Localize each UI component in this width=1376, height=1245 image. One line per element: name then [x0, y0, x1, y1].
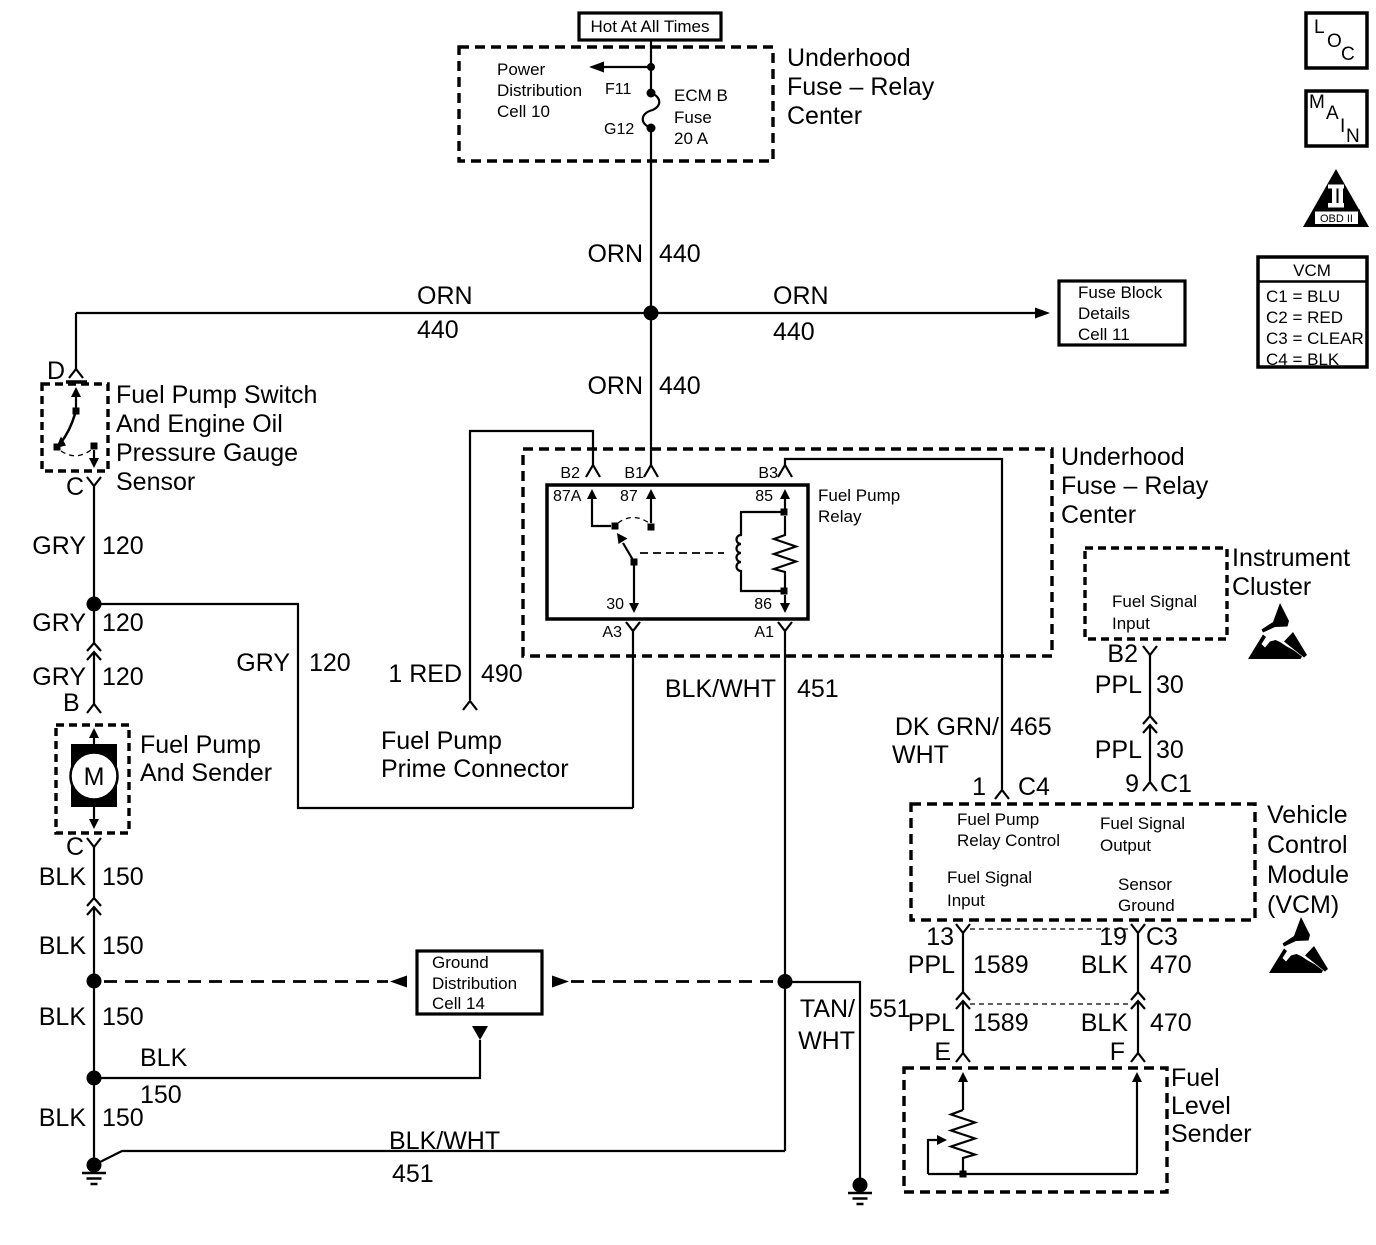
wire: GRY 120 branch from switch node to relay pin 30 — [94, 604, 633, 808]
svg-text:440: 440 — [417, 316, 459, 344]
svg-text:TAN/: TAN/ — [800, 995, 855, 1023]
svg-text:Fuel Pump Switch: Fuel Pump Switch — [116, 381, 317, 409]
dashed wire to Ground Distribution (left) — [104, 980, 388, 983]
svg-text:BLK: BLK — [39, 932, 87, 960]
wire: BLK/WHT 451 bottom run — [94, 1151, 785, 1165]
node: GRY junction to relay pin 30 branch — [87, 597, 102, 612]
svg-text:PPL: PPL — [908, 951, 955, 979]
dashed wire to Ground Distribution (right) — [552, 976, 569, 988]
svg-text:150: 150 — [102, 932, 144, 960]
in-line connector on BLK wire — [87, 898, 101, 915]
svg-text:551: 551 — [869, 995, 911, 1023]
svg-text:Details: Details — [1078, 304, 1130, 323]
svg-text:Pressure Gauge: Pressure Gauge — [116, 439, 298, 467]
node: main ORN junction — [644, 306, 659, 321]
svg-text:O: O — [1327, 31, 1342, 52]
sender variable resistor — [951, 1110, 975, 1171]
fuse F11 ECM B 20A — [647, 89, 656, 98]
switch blade — [60, 414, 75, 444]
svg-text:ORN: ORN — [587, 372, 643, 400]
svg-text:G12: G12 — [604, 121, 634, 138]
switch contact node — [73, 408, 80, 415]
svg-text:Power: Power — [497, 60, 546, 79]
svg-text:Distribution: Distribution — [497, 81, 582, 100]
svg-text:150: 150 — [102, 863, 144, 891]
node: BLK junction to ground distribution — [87, 974, 102, 989]
svg-text:C4: C4 — [1018, 773, 1050, 801]
svg-text:PPL: PPL — [1095, 671, 1142, 699]
svg-text:Ground: Ground — [432, 953, 489, 972]
connector C — [87, 477, 101, 486]
svg-text:120: 120 — [309, 649, 351, 677]
connector B2 — [586, 465, 600, 477]
sender bottom wire — [928, 1173, 1137, 1175]
svg-text:Fuel Signal: Fuel Signal — [1112, 592, 1197, 611]
Underhood Fuse-Relay Center dashed box (relay) — [523, 449, 1052, 656]
in-line connector on GRY wire — [87, 643, 101, 660]
svg-text:470: 470 — [1150, 951, 1192, 979]
svg-text:A3: A3 — [602, 624, 622, 641]
svg-text:Fuel Pump: Fuel Pump — [818, 486, 900, 505]
svg-text:Level: Level — [1171, 1092, 1231, 1120]
svg-text:440: 440 — [773, 318, 815, 346]
svg-text:Control: Control — [1267, 831, 1348, 859]
svg-text:470: 470 — [1150, 1009, 1192, 1037]
relay pin 86 arrow — [784, 595, 786, 603]
Hot At All Times box — [579, 13, 721, 40]
Fuse Block Details Cell 11 box — [1059, 281, 1185, 345]
svg-text:GRY: GRY — [236, 649, 290, 677]
svg-text:1: 1 — [972, 773, 986, 801]
svg-text:465: 465 — [1010, 713, 1052, 741]
wire: DK GRN/WHT 465 from B3 to VCM C4 — [785, 459, 1002, 790]
Fuel Level Sender dashed box — [904, 1068, 1167, 1192]
OBD II symbol — [1303, 169, 1369, 227]
ESD symbol (VCM) — [1269, 917, 1328, 973]
svg-text:B1: B1 — [624, 465, 644, 482]
svg-text:Sensor: Sensor — [116, 468, 195, 496]
ESD symbol (instrument cluster) — [1248, 603, 1307, 659]
svg-text:Hot At All Times: Hot At All Times — [590, 17, 709, 36]
coil bottom node — [781, 588, 788, 595]
node: BLK junction to ground distribution tap — [87, 1071, 102, 1086]
svg-text:B2: B2 — [560, 465, 580, 482]
svg-text:ORN: ORN — [417, 282, 473, 310]
svg-text:Vehicle: Vehicle — [1267, 801, 1348, 829]
sender signal arrow — [958, 1072, 968, 1082]
connector B3 — [778, 465, 792, 477]
wire: ORN 440 horizontal bus — [76, 312, 1042, 314]
svg-text:150: 150 — [102, 1003, 144, 1031]
in-line connector on PPL wire — [1143, 716, 1157, 733]
wire: BLK 470 — [1137, 933, 1139, 992]
svg-text:M: M — [1309, 92, 1325, 113]
svg-text:120: 120 — [102, 532, 144, 560]
svg-text:Fuse: Fuse — [674, 108, 712, 127]
svg-text:Fuel Pump: Fuel Pump — [140, 731, 261, 759]
relay common 30 arrow — [633, 565, 635, 603]
wire: sender ground to F — [1136, 1081, 1138, 1174]
relay suppression resistor — [774, 516, 796, 588]
ground G103 (left) — [87, 1158, 102, 1173]
svg-text:GRY: GRY — [32, 609, 86, 637]
svg-text:E: E — [934, 1038, 951, 1066]
svg-text:Fuel Signal: Fuel Signal — [947, 868, 1032, 887]
svg-text:ORN: ORN — [587, 240, 643, 268]
switch output arrow (down) — [93, 450, 95, 459]
svg-text:BLK: BLK — [1081, 951, 1129, 979]
svg-text:BLK: BLK — [39, 863, 87, 891]
relay pin 85 arrow — [784, 499, 786, 509]
wire: BLK 150 branch to Ground Distribution box — [94, 1040, 480, 1078]
svg-text:451: 451 — [797, 675, 839, 703]
wire: PPL 30 — [1149, 655, 1151, 716]
Instrument Cluster dashed box — [1085, 548, 1227, 639]
svg-text:And Sender: And Sender — [140, 759, 272, 787]
svg-text:B3: B3 — [758, 465, 778, 482]
relay coil — [737, 512, 785, 591]
Fuel Pump Switch dashed box — [42, 384, 108, 471]
node: junction BLK/WHT to ground distribution — [778, 974, 793, 989]
svg-text:Cell 10: Cell 10 — [497, 102, 550, 121]
svg-text:Fuse Block: Fuse Block — [1078, 283, 1163, 302]
svg-text:Fuel Signal: Fuel Signal — [1100, 814, 1185, 833]
VCM connector legend table — [1258, 257, 1367, 369]
svg-text:1 RED: 1 RED — [388, 660, 462, 688]
connector B2 (cluster) — [1143, 646, 1157, 655]
relay actuator dashed link — [640, 552, 724, 554]
svg-text:Fuel Pump: Fuel Pump — [381, 727, 502, 755]
svg-text:Relay: Relay — [818, 507, 862, 526]
svg-text:D: D — [47, 357, 65, 385]
svg-text:87: 87 — [620, 488, 638, 505]
Underhood Fuse-Relay Center dashed box (top) — [459, 47, 773, 161]
connector 19 — [1131, 924, 1145, 933]
motor M1 fuel pump — [71, 744, 117, 807]
svg-text:I: I — [1340, 116, 1345, 137]
Vehicle Control Module dashed box — [911, 804, 1255, 920]
svg-text:Sensor: Sensor — [1118, 875, 1172, 894]
svg-text:BLK/WHT: BLK/WHT — [389, 1127, 500, 1155]
connector 13 — [956, 924, 970, 933]
wire: battery feed down from Hot At All Times — [650, 40, 652, 90]
svg-text:Center: Center — [1061, 501, 1136, 529]
connector E — [956, 1053, 970, 1062]
svg-text:PPL: PPL — [908, 1009, 955, 1037]
svg-text:120: 120 — [102, 663, 144, 691]
svg-text:A1: A1 — [754, 624, 774, 641]
svg-text:Output: Output — [1100, 836, 1151, 855]
svg-text:Prime Connector: Prime Connector — [381, 755, 569, 783]
svg-text:13: 13 — [926, 923, 954, 951]
sender resistor bottom node — [960, 1171, 967, 1178]
svg-text:C: C — [1341, 44, 1355, 65]
svg-text:30: 30 — [1156, 736, 1184, 764]
connector link dashed (bottom) — [970, 1003, 1131, 1005]
svg-text:C3 = CLEAR: C3 = CLEAR — [1266, 329, 1364, 348]
svg-text:BLK: BLK — [1081, 1009, 1129, 1037]
svg-text:Sender: Sender — [1171, 1120, 1252, 1148]
svg-text:30: 30 — [1156, 671, 1184, 699]
relay blade pivot — [631, 559, 638, 566]
svg-text:Fuse – Relay: Fuse – Relay — [1061, 472, 1209, 500]
wire: BLK 150 — [93, 847, 95, 898]
MAIN symbol box — [1306, 91, 1367, 146]
svg-text:451: 451 — [392, 1160, 434, 1188]
connector D (male/female halves) — [69, 369, 83, 378]
svg-text:B: B — [63, 689, 80, 717]
motor return arrow — [93, 807, 95, 820]
svg-text:L: L — [1314, 17, 1325, 38]
connector B1 — [644, 465, 658, 477]
wire: arrow to Power Distribution — [598, 66, 651, 68]
svg-text:87A: 87A — [553, 488, 582, 505]
svg-text:OBD II: OBD II — [1320, 213, 1353, 225]
wire: BLK/WHT 451 from relay 86 — [784, 631, 786, 1151]
svg-text:86: 86 — [754, 596, 772, 613]
connector F — [1131, 1053, 1145, 1062]
Ground Distribution Cell 14 box — [417, 951, 542, 1014]
svg-text:Fuel: Fuel — [1171, 1064, 1220, 1092]
svg-text:490: 490 — [481, 660, 523, 688]
wire: TAN/WHT 551 branch — [785, 982, 860, 1185]
svg-text:PPL: PPL — [1095, 736, 1142, 764]
svg-text:BLK/WHT: BLK/WHT — [665, 675, 776, 703]
svg-text:C3: C3 — [1146, 923, 1178, 951]
svg-text:WHT: WHT — [798, 1027, 855, 1055]
motor feed arrow — [89, 728, 99, 738]
in-line connector on PPL 1589 — [956, 992, 970, 1009]
node: junction to power distribution arrow — [647, 63, 655, 71]
wire: BLK 150 to ground — [93, 907, 95, 1165]
wire: RED 490 fuel pump prime — [470, 431, 593, 700]
svg-text:1589: 1589 — [973, 951, 1029, 979]
switch pivot node — [54, 444, 61, 451]
svg-text:C: C — [66, 833, 84, 861]
connector link dashed (top) — [970, 928, 1131, 930]
svg-text:1589: 1589 — [973, 1009, 1029, 1037]
svg-text:440: 440 — [659, 372, 701, 400]
svg-text:Distribution: Distribution — [432, 974, 517, 993]
svg-text:ORN: ORN — [773, 282, 829, 310]
wire: drop to fuel pump switch D — [75, 313, 77, 369]
svg-text:GRY: GRY — [32, 663, 86, 691]
relay contact dashed arc — [618, 518, 649, 524]
in-line connector on BLK 470 — [1131, 992, 1145, 1009]
sender wiper arrow — [928, 1140, 938, 1174]
svg-text:120: 120 — [102, 609, 144, 637]
relay switch blade — [623, 543, 633, 560]
svg-text:A: A — [1326, 103, 1339, 124]
svg-text:Module: Module — [1267, 861, 1349, 889]
connector B — [87, 704, 101, 713]
wire: arrow to Fuse Block Details — [1035, 308, 1050, 319]
wire: ORN 440 vertical from fuse to B1 — [650, 132, 652, 465]
svg-text:Fuel Pump: Fuel Pump — [957, 810, 1039, 829]
svg-text:85: 85 — [755, 488, 773, 505]
svg-text:ECM B: ECM B — [674, 86, 728, 105]
svg-text:Instrument: Instrument — [1232, 544, 1350, 572]
svg-text:Input: Input — [947, 891, 985, 910]
ground G (TAN/WHT) — [853, 1178, 868, 1193]
svg-text:C4 = BLK: C4 = BLK — [1266, 350, 1340, 369]
svg-text:Cell 14: Cell 14 — [432, 994, 485, 1013]
relay contact 87A arrow — [587, 489, 597, 499]
svg-text:Ground: Ground — [1118, 896, 1175, 915]
LOC symbol box — [1306, 13, 1367, 68]
switch dashed throw arc — [61, 450, 91, 456]
svg-text:M: M — [84, 763, 105, 791]
svg-text:C1: C1 — [1160, 770, 1192, 798]
svg-text:F11: F11 — [605, 81, 631, 98]
svg-text:19: 19 — [1099, 923, 1127, 951]
svg-text:Underhood: Underhood — [1061, 443, 1185, 471]
connector C (pump) — [87, 838, 101, 847]
relay contact 87 arrow — [646, 489, 656, 499]
svg-text:N: N — [1346, 126, 1360, 147]
connector: fuel pump prime — [463, 701, 477, 710]
svg-text:VCM: VCM — [1293, 261, 1331, 280]
svg-text:Underhood: Underhood — [787, 44, 911, 72]
connector A3 — [626, 622, 640, 631]
fuel pump relay K1 box — [547, 485, 808, 619]
svg-text:WHT: WHT — [892, 741, 949, 769]
svg-text:440: 440 — [659, 240, 701, 268]
svg-text:C: C — [66, 473, 84, 501]
svg-text:150: 150 — [102, 1104, 144, 1132]
svg-text:C1 = BLU: C1 = BLU — [1266, 287, 1340, 306]
svg-text:Cell 11: Cell 11 — [1078, 325, 1130, 344]
Fuel Pump And Sender dashed box — [56, 725, 129, 833]
svg-text:Cluster: Cluster — [1232, 573, 1311, 601]
svg-text:Input: Input — [1112, 614, 1150, 633]
coil top node — [781, 509, 788, 516]
svg-text:B2: B2 — [1107, 640, 1138, 668]
svg-text:BLK: BLK — [39, 1104, 87, 1132]
switch contact arrow (up) — [71, 387, 81, 397]
svg-text:Center: Center — [787, 102, 862, 130]
svg-text:Relay Control: Relay Control — [957, 831, 1060, 850]
svg-text:And Engine Oil: And Engine Oil — [116, 410, 283, 438]
svg-text:9: 9 — [1125, 770, 1139, 798]
connector A1 — [778, 622, 792, 631]
wire: PPL 1589 — [962, 933, 964, 992]
svg-text:30: 30 — [606, 596, 624, 613]
svg-text:F: F — [1110, 1038, 1125, 1066]
svg-text:C2 = RED: C2 = RED — [1266, 308, 1343, 327]
svg-text:BLK: BLK — [140, 1044, 188, 1072]
connector C1 — [1143, 782, 1157, 791]
svg-text:GRY: GRY — [32, 532, 86, 560]
switch output node — [91, 443, 98, 450]
svg-text:BLK: BLK — [39, 1003, 87, 1031]
svg-text:20 A: 20 A — [674, 129, 709, 148]
svg-text:150: 150 — [140, 1081, 182, 1109]
svg-text:(VCM): (VCM) — [1267, 891, 1339, 919]
connector C4 — [995, 790, 1009, 799]
wire: GRY 120 — [93, 486, 95, 643]
svg-text:Fuse – Relay: Fuse – Relay — [787, 73, 935, 101]
svg-text:DK GRN/: DK GRN/ — [895, 713, 999, 741]
wire: relay pin30 output down — [632, 631, 634, 808]
